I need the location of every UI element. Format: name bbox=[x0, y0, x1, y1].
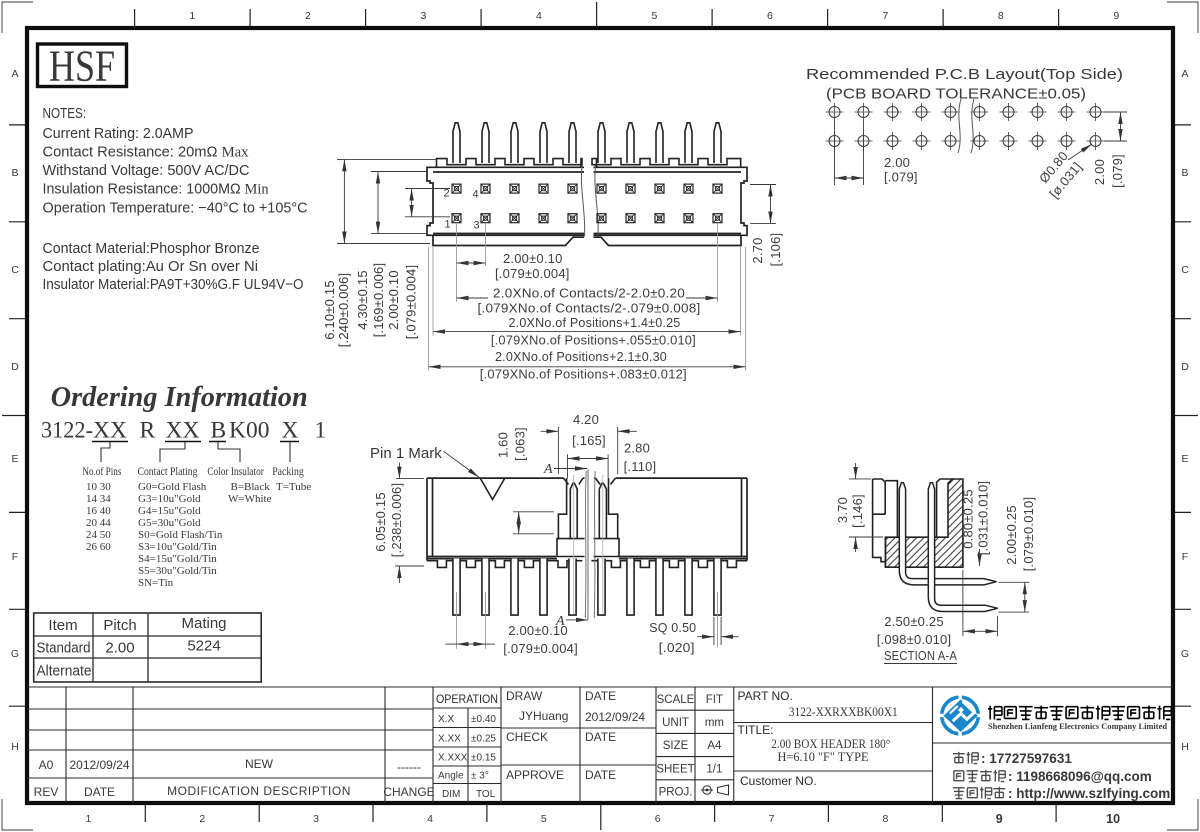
svg-text:3: 3 bbox=[474, 220, 480, 232]
svg-text:B=Black: B=Black bbox=[231, 481, 271, 493]
svg-text:DIM: DIM bbox=[442, 789, 460, 800]
svg-text:TITLE:: TITLE: bbox=[738, 723, 774, 737]
svg-text:X.X: X.X bbox=[438, 714, 454, 725]
leader lines to field labels bbox=[101, 442, 290, 462]
svg-text:8: 8 bbox=[998, 10, 1004, 22]
svg-text:F: F bbox=[1182, 551, 1188, 563]
OPERATION tolerance table bbox=[433, 687, 501, 803]
dim 4.30 extension lines bbox=[371, 171, 427, 173]
svg-text:NEW: NEW bbox=[245, 757, 274, 771]
svg-text:T=Tube: T=Tube bbox=[276, 481, 311, 493]
svg-text:F: F bbox=[12, 551, 18, 563]
svg-text:1/1: 1/1 bbox=[706, 764, 722, 776]
svg-text:5: 5 bbox=[651, 10, 657, 22]
svg-text:A: A bbox=[11, 68, 18, 80]
svg-text:H=6.10 "F" TYPE: H=6.10 "F" TYPE bbox=[778, 750, 869, 764]
top view insulator top wall, right half bbox=[592, 159, 741, 168]
svg-text:[.106]: [.106] bbox=[768, 233, 783, 267]
svg-text:2.00±0.10: 2.00±0.10 bbox=[386, 270, 401, 330]
svg-text:3: 3 bbox=[420, 10, 426, 22]
svg-text:20 44: 20 44 bbox=[86, 517, 111, 529]
svg-text:DATE: DATE bbox=[84, 785, 115, 799]
svg-text:1: 1 bbox=[189, 10, 195, 22]
dim positions +1.4 line bbox=[433, 331, 741, 333]
company logo emblem bbox=[939, 695, 982, 737]
svg-text:H: H bbox=[11, 741, 19, 753]
svg-text:Alternate: Alternate bbox=[37, 663, 92, 680]
svg-text:Insulator Material:PA9T+30%G.F: Insulator Material:PA9T+30%G.F UL94V−O bbox=[43, 276, 304, 293]
svg-text:[.079±0.004]: [.079±0.004] bbox=[503, 641, 578, 656]
third angle projection symbol bbox=[701, 785, 729, 795]
svg-text:G: G bbox=[1181, 648, 1189, 660]
svg-text:------: ------ bbox=[397, 760, 421, 774]
svg-text:0.80±0.25: 0.80±0.25 bbox=[961, 489, 976, 549]
color insulator list bbox=[228, 481, 272, 505]
section pins with right-angle bend bbox=[899, 483, 997, 612]
svg-text:2.00: 2.00 bbox=[884, 155, 910, 170]
svg-text:B: B bbox=[1181, 167, 1188, 179]
svg-text:±0.40: ±0.40 bbox=[471, 714, 496, 725]
svg-text:Operation Temperature: −40°C t: Operation Temperature: −40°C to +105°C bbox=[43, 200, 308, 217]
svg-text:X.XXX: X.XXX bbox=[438, 753, 468, 764]
top view contact pads (squares), rows 1-2 bbox=[452, 184, 722, 223]
svg-text:C: C bbox=[1181, 264, 1189, 276]
svg-text:Mating: Mating bbox=[181, 615, 226, 632]
dim SQ 0.50 pin size bbox=[697, 617, 738, 645]
gray extension lines from contact squares down bbox=[429, 223, 746, 371]
dim 6.05 left bbox=[395, 463, 424, 583]
svg-text:[.238±0.006]: [.238±0.006] bbox=[389, 483, 404, 558]
svg-text:[.110]: [.110] bbox=[624, 459, 657, 474]
svg-text:DATE: DATE bbox=[585, 768, 616, 782]
front view bottom standoffs bbox=[427, 561, 747, 568]
svg-text:2012/09/24: 2012/09/24 bbox=[69, 758, 129, 772]
svg-text:[.146]: [.146] bbox=[850, 494, 865, 528]
svg-text:±0.25: ±0.25 bbox=[471, 734, 496, 745]
svg-text:2.0XNo.of Positions+1.4±0.25: 2.0XNo.of Positions+1.4±0.25 bbox=[509, 315, 681, 330]
svg-text:2.00: 2.00 bbox=[105, 640, 134, 657]
svg-text:MODIFICATION DESCRIPTION: MODIFICATION DESCRIPTION bbox=[167, 784, 351, 798]
svg-text:S0=Gold Flash/Tin: S0=Gold Flash/Tin bbox=[138, 529, 223, 541]
dim 2.00 row pitch extension lines bbox=[405, 188, 450, 190]
svg-text:7: 7 bbox=[769, 813, 775, 825]
section line A-A bbox=[587, 469, 589, 620]
svg-text:APPROVE: APPROVE bbox=[506, 768, 564, 782]
svg-text:DATE: DATE bbox=[585, 689, 616, 703]
svg-text:[.063]: [.063] bbox=[513, 427, 528, 461]
svg-text:2012/09/24: 2012/09/24 bbox=[585, 710, 645, 724]
section A-A dims: 2.00 bbox=[999, 582, 1030, 612]
svg-text:6: 6 bbox=[767, 10, 773, 22]
svg-text:2: 2 bbox=[444, 188, 450, 200]
svg-text:Contact plating:Au Or Sn over: Contact plating:Au Or Sn over Ni bbox=[43, 258, 259, 275]
svg-text:HSF: HSF bbox=[49, 42, 115, 91]
svg-text:Contact Plating: Contact Plating bbox=[138, 466, 198, 478]
svg-text:DRAW: DRAW bbox=[506, 689, 543, 703]
svg-text:DATE: DATE bbox=[585, 730, 616, 744]
rotated dim texts left of top view bbox=[322, 263, 419, 348]
svg-text:JYHuang: JYHuang bbox=[519, 709, 568, 723]
TOP VIEW dimensions, left rotated stack bbox=[337, 159, 450, 243]
top view insulator top wall, left half bbox=[437, 159, 583, 168]
svg-text:G4=15u"Gold: G4=15u"Gold bbox=[138, 505, 201, 517]
dim positions +2.1 line bbox=[429, 366, 746, 368]
svg-text:: 17727597631: : 17727597631 bbox=[981, 751, 1072, 766]
contact plating list bbox=[138, 481, 223, 589]
dim 2.00 row pitch line bbox=[411, 189, 413, 217]
svg-text:X.XX: X.XX bbox=[438, 734, 461, 745]
contact info lines bbox=[953, 752, 1005, 799]
PCB pad holes grid 2x10 bbox=[826, 103, 1105, 150]
svg-text:7: 7 bbox=[882, 10, 888, 22]
svg-text:CHANGE: CHANGE bbox=[383, 785, 434, 799]
svg-text:[.079]: [.079] bbox=[884, 170, 918, 185]
svg-text:4: 4 bbox=[427, 813, 433, 825]
dim 1.60 bbox=[513, 512, 554, 534]
dim 2.00 contact pitch (below top view) bbox=[457, 262, 486, 264]
section A-A dims: 3.70 bbox=[849, 463, 883, 552]
PART NO / TITLE block bbox=[734, 687, 933, 803]
svg-text:G0=Gold Flash: G0=Gold Flash bbox=[138, 481, 207, 493]
svg-text:14 34: 14 34 bbox=[86, 493, 111, 505]
svg-text:Contact Material:Phosphor Bron: Contact Material:Phosphor Bronze bbox=[43, 240, 260, 257]
svg-text:Contact Resistance: 20mΩ Max: Contact Resistance: 20mΩ Max bbox=[43, 144, 249, 161]
svg-text:SIZE: SIZE bbox=[663, 740, 689, 752]
FRONT VIEW body bbox=[427, 478, 747, 561]
svg-text:SHEET: SHEET bbox=[656, 764, 694, 776]
pin 1 mark triangle bbox=[481, 479, 505, 500]
svg-text:[.031±0.010]: [.031±0.010] bbox=[976, 481, 991, 556]
svg-text:Insulation Resistance: 1000MΩ: Insulation Resistance: 1000MΩ Min bbox=[43, 181, 269, 198]
svg-text:Shenzhen Lianfeng Electronics: Shenzhen Lianfeng Electronics Company Li… bbox=[988, 721, 1167, 731]
svg-text:24 50: 24 50 bbox=[86, 529, 111, 541]
company block divider bbox=[933, 742, 1174, 744]
svg-text:4.30±0.15: 4.30±0.15 bbox=[355, 270, 370, 330]
svg-text:SN=Tin: SN=Tin bbox=[138, 577, 174, 589]
svg-text:Color Insulator: Color Insulator bbox=[207, 466, 264, 478]
svg-text:2: 2 bbox=[305, 10, 311, 22]
svg-text:2.70: 2.70 bbox=[750, 237, 765, 263]
dim no.of contacts line bbox=[457, 297, 718, 299]
svg-text:S5=30u"Gold/Tin: S5=30u"Gold/Tin bbox=[138, 565, 217, 577]
svg-text:1: 1 bbox=[445, 219, 451, 231]
svg-text:3122-: 3122- bbox=[41, 418, 93, 444]
svg-text:2.80: 2.80 bbox=[624, 441, 650, 456]
svg-text:K00: K00 bbox=[229, 418, 269, 444]
svg-text:± 3°: ± 3° bbox=[471, 771, 489, 782]
svg-text:2.00 BOX HEADER 180°: 2.00 BOX HEADER 180° bbox=[771, 737, 890, 751]
svg-text:16 40: 16 40 bbox=[86, 505, 111, 517]
svg-text:Current Rating: 2.0AMP: Current Rating: 2.0AMP bbox=[43, 125, 194, 142]
section right wall white sub-wall bbox=[937, 479, 953, 537]
svg-text:B: B bbox=[211, 418, 227, 444]
svg-text:Item: Item bbox=[48, 617, 77, 634]
svg-text:mm: mm bbox=[705, 717, 724, 729]
svg-text:NOTES:: NOTES: bbox=[43, 105, 87, 122]
svg-text:SQ 0.50: SQ 0.50 bbox=[649, 620, 696, 635]
svg-text:Pin 1 Mark: Pin 1 Mark bbox=[370, 445, 442, 462]
svg-text:3.70: 3.70 bbox=[835, 497, 850, 523]
PCB break lines bbox=[958, 99, 974, 153]
svg-text:A: A bbox=[543, 462, 553, 477]
svg-text:[.165]: [.165] bbox=[572, 433, 606, 448]
front view center channel left piece bbox=[557, 478, 619, 556]
svg-text:4: 4 bbox=[536, 10, 542, 22]
svg-text:D: D bbox=[11, 361, 19, 373]
svg-text:R: R bbox=[140, 418, 156, 444]
svg-text:[.098±0.010]: [.098±0.010] bbox=[877, 632, 952, 647]
svg-text:E: E bbox=[11, 453, 18, 465]
svg-text:SECTION A-A: SECTION A-A bbox=[884, 648, 957, 663]
svg-text:4.20: 4.20 bbox=[573, 412, 599, 427]
svg-text:No.of Pins: No.of Pins bbox=[82, 466, 121, 478]
section A-A dims: 2.50 bbox=[963, 570, 998, 636]
svg-text:[.079±0.010]: [.079±0.010] bbox=[1021, 497, 1036, 572]
PCB dim 2.00 row spacing (right) bbox=[1104, 112, 1127, 141]
svg-text:[.240±0.006]: [.240±0.006] bbox=[336, 273, 351, 348]
svg-text:H: H bbox=[1181, 741, 1189, 753]
SCALE/UNIT/SIZE/SHEET/PROJ block bbox=[656, 687, 734, 803]
svg-text:[.079±0.004]: [.079±0.004] bbox=[495, 266, 570, 281]
svg-text:G5=30u"Gold: G5=30u"Gold bbox=[138, 517, 201, 529]
svg-text:A: A bbox=[1181, 68, 1188, 80]
svg-text:6: 6 bbox=[655, 813, 661, 825]
ITEM/PITCH/MATING table bbox=[34, 613, 262, 682]
svg-text:5: 5 bbox=[541, 813, 547, 825]
top view base flange left half bbox=[433, 235, 584, 245]
top view break line right bbox=[595, 166, 598, 237]
svg-text:1: 1 bbox=[315, 418, 327, 444]
svg-text:X: X bbox=[282, 418, 299, 444]
svg-text:2.50±0.25: 2.50±0.25 bbox=[884, 614, 944, 629]
dim 6.10 line bbox=[343, 159, 345, 243]
dim 4.30 line bbox=[377, 172, 379, 234]
svg-text:W=White: W=White bbox=[228, 493, 272, 505]
left wall outline (unhatched) bbox=[873, 479, 898, 567]
svg-text:26 60: 26 60 bbox=[86, 541, 111, 553]
svg-text:2.00±0.10: 2.00±0.10 bbox=[503, 251, 563, 266]
svg-text:6.10±0.15: 6.10±0.15 bbox=[322, 280, 337, 340]
svg-text:REV: REV bbox=[34, 785, 59, 799]
svg-text:2.00: 2.00 bbox=[1092, 159, 1107, 185]
svg-text:2.0XNo.of Positions+2.1±0.30: 2.0XNo.of Positions+2.1±0.30 bbox=[495, 349, 667, 364]
svg-text:G3=10u"Gold: G3=10u"Gold bbox=[138, 493, 201, 505]
svg-text:10: 10 bbox=[1106, 812, 1120, 826]
svg-text:Packing: Packing bbox=[272, 466, 304, 478]
svg-text:[.079]: [.079] bbox=[1110, 154, 1125, 188]
dim 2.80 bbox=[568, 454, 609, 478]
DRAW/CHECK/APPROVE block bbox=[501, 687, 656, 803]
svg-text:9: 9 bbox=[1113, 10, 1119, 22]
svg-text:FIT: FIT bbox=[706, 694, 723, 706]
svg-text:6.05±0.15: 6.05±0.15 bbox=[373, 492, 388, 552]
front view pins below body bbox=[453, 559, 721, 616]
svg-text:UNIT: UNIT bbox=[662, 717, 689, 729]
svg-text:Standard: Standard bbox=[37, 640, 91, 657]
svg-text:PART NO.: PART NO. bbox=[738, 689, 793, 703]
PCB hole diameter callout bbox=[1068, 144, 1092, 160]
svg-text:[.169±0.006]: [.169±0.006] bbox=[371, 263, 386, 338]
svg-text:3122-XXRXXBK00X1: 3122-XXRXXBK00X1 bbox=[789, 704, 898, 719]
svg-text:[.020]: [.020] bbox=[659, 640, 695, 655]
svg-text:S4=15u"Gold/Tin: S4=15u"Gold/Tin bbox=[138, 553, 217, 565]
top view pins 1-10 bbox=[453, 123, 721, 163]
svg-text:G: G bbox=[11, 648, 19, 660]
svg-text:5224: 5224 bbox=[187, 638, 220, 655]
svg-text:[.079XNo.of Contacts/2-.079±0.: [.079XNo.of Contacts/2-.079±0.008] bbox=[478, 301, 701, 316]
svg-text:(PCB BOARD TOLERANCE±0.05): (PCB BOARD TOLERANCE±0.05) bbox=[826, 86, 1086, 103]
pin number labels 1-4 bbox=[444, 188, 480, 232]
dim 4.20 bbox=[541, 427, 637, 474]
svg-text:Angle: Angle bbox=[438, 771, 464, 782]
front view break lines bbox=[585, 471, 595, 618]
HSF logo box bbox=[38, 44, 127, 87]
svg-text:XX: XX bbox=[166, 418, 200, 444]
svg-text:CHECK: CHECK bbox=[506, 730, 548, 744]
svg-text:9: 9 bbox=[996, 812, 1003, 826]
channel pin left bbox=[570, 483, 577, 538]
svg-text:D: D bbox=[1181, 361, 1189, 373]
top view body outline right half bbox=[594, 167, 748, 235]
top view body outline left half bbox=[427, 167, 747, 245]
svg-text:OPERATION: OPERATION bbox=[436, 692, 498, 706]
svg-text:2.0XNo.of Contacts/2-2.0±0.20: 2.0XNo.of Contacts/2-2.0±0.20 bbox=[493, 286, 685, 301]
svg-text:1: 1 bbox=[85, 813, 91, 825]
svg-text:: 1198668096@qq.com: : 1198668096@qq.com bbox=[1008, 769, 1152, 784]
svg-text:[.079XNo.of Positions+.083±0.0: [.079XNo.of Positions+.083±0.012] bbox=[480, 367, 687, 382]
svg-text:8: 8 bbox=[882, 813, 888, 825]
svg-text:S3=10u"Gold/Tin: S3=10u"Gold/Tin bbox=[138, 541, 217, 553]
PCB dim 2.00 pitch bbox=[835, 121, 864, 185]
underlines under code fields bbox=[92, 441, 299, 443]
svg-text:E: E bbox=[1181, 453, 1188, 465]
svg-text:B: B bbox=[11, 167, 18, 179]
svg-text:Customer NO.: Customer NO. bbox=[740, 774, 817, 788]
svg-text:±0.15: ±0.15 bbox=[471, 753, 496, 764]
top view break line left bbox=[581, 166, 584, 237]
part number breakdown line bbox=[41, 418, 326, 444]
dim 2.00 pin pitch below front view bbox=[457, 592, 486, 649]
svg-text:2: 2 bbox=[199, 813, 205, 825]
logo diamond bbox=[944, 700, 978, 732]
svg-text:10 30: 10 30 bbox=[86, 481, 111, 493]
svg-text:4: 4 bbox=[473, 189, 479, 201]
top view base flange right half bbox=[594, 235, 742, 245]
svg-text:[.079XNo.of Positions+.055±0.0: [.079XNo.of Positions+.055±0.010] bbox=[491, 333, 696, 348]
svg-text:TOL: TOL bbox=[476, 789, 496, 800]
svg-text:Pitch: Pitch bbox=[103, 617, 136, 634]
field labels bbox=[82, 466, 304, 478]
channel pin right bbox=[599, 483, 606, 538]
svg-text:Recommended P.C.B Layout(Top S: Recommended P.C.B Layout(Top Side) bbox=[806, 66, 1123, 83]
svg-text:C: C bbox=[11, 264, 19, 276]
svg-text:1.60: 1.60 bbox=[496, 432, 511, 458]
svg-text:A4: A4 bbox=[707, 740, 722, 752]
svg-text:[.079±0.004]: [.079±0.004] bbox=[404, 265, 419, 340]
notes text block bbox=[43, 105, 308, 293]
svg-text:SCALE: SCALE bbox=[657, 694, 695, 706]
front view center channel right piece bbox=[609, 478, 620, 556]
svg-text:Withstand Voltage: 500V AC/DC: Withstand Voltage: 500V AC/DC bbox=[43, 162, 250, 179]
svg-text:Ordering Information: Ordering Information bbox=[51, 382, 308, 413]
dim 6.10 extension lines bbox=[337, 158, 436, 160]
company Chinese name (stylized glyphs) bbox=[988, 706, 1171, 720]
svg-text:3: 3 bbox=[313, 813, 319, 825]
svg-text:PROJ.: PROJ. bbox=[659, 787, 693, 799]
hatched L-shaped insulator section bbox=[885, 479, 963, 567]
dim 2.70 right side of top view bbox=[750, 185, 776, 224]
svg-text:A0: A0 bbox=[39, 758, 54, 772]
section A-A dims: 0.80 bbox=[979, 549, 981, 566]
svg-text:2.00±0.25: 2.00±0.25 bbox=[1004, 505, 1019, 565]
svg-text:XX: XX bbox=[93, 418, 127, 444]
svg-text:: http://www.szlfying.com: : http://www.szlfying.com bbox=[1008, 786, 1170, 801]
svg-text:2.00±0.10: 2.00±0.10 bbox=[508, 623, 568, 638]
no. of pins list bbox=[86, 481, 111, 553]
REVISION table bbox=[27, 687, 1173, 803]
